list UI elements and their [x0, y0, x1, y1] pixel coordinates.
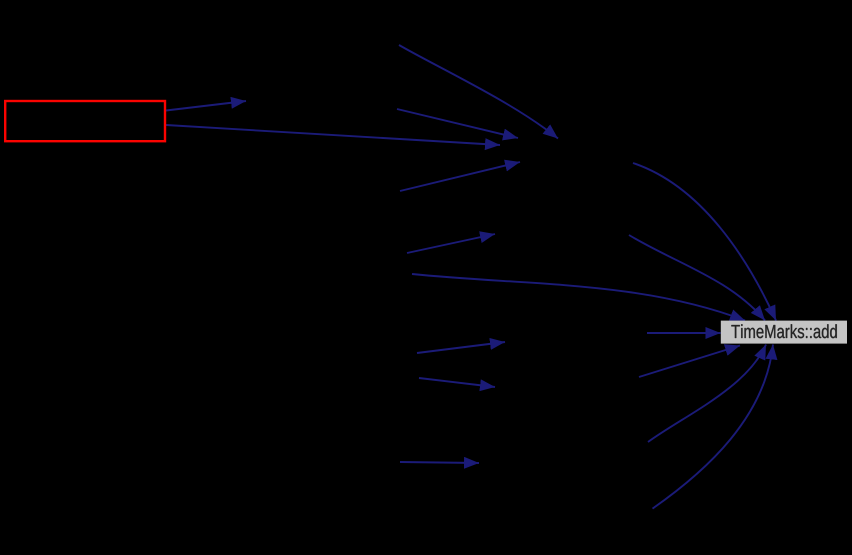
node: truncated caller (red box) — [5, 101, 165, 141]
edge: curve node2 to TimeMarks::add top — [629, 235, 765, 321]
edge: red node to mid hidden node — [166, 125, 500, 145]
edge: curve from y442 into box bottom — [648, 345, 766, 443]
edge: curve from y508 into box bottom — [653, 345, 774, 509]
edge: hidden caller to mid node (row 234) — [407, 234, 495, 253]
edge: hidden caller curve from top — [399, 45, 558, 139]
edge: straight into TimeMarks::add left — [647, 332, 721, 334]
edge: long curve to TimeMarks::add top-left — [412, 274, 745, 321]
edge: red node to upper hidden node — [166, 101, 246, 111]
edge: straight from below-left into box bottom — [639, 346, 740, 378]
edge: curve node1 to TimeMarks::add top — [633, 163, 776, 321]
node TimeMarks::add — [721, 321, 847, 344]
edge: hidden caller row 462 — [400, 462, 479, 463]
edge: hidden caller row 378 — [419, 378, 495, 387]
edge: hidden caller to mid node (up-right) — [400, 162, 520, 191]
edge: hidden caller row 353 — [417, 342, 505, 353]
edge: hidden caller to mid node (upper straight) — [397, 109, 518, 138]
